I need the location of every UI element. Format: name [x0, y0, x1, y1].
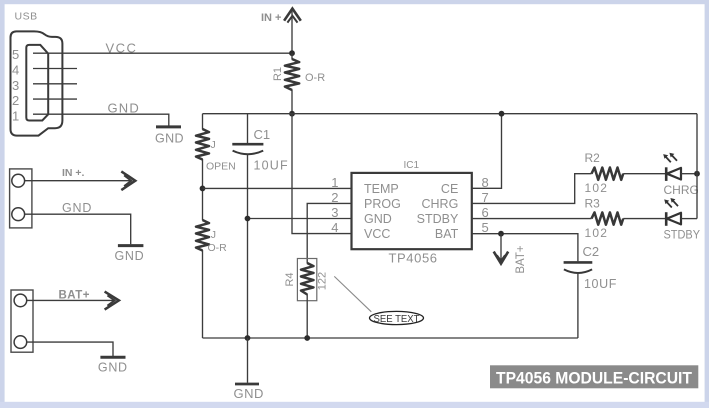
wire right rail: [696, 114, 698, 219]
svg-text:BAT+: BAT+: [59, 290, 91, 302]
svg-text:TP4056 MODULE-CIRCUIT: TP4056 MODULE-CIRCUIT: [496, 369, 693, 388]
svg-text:10UF: 10UF: [254, 159, 289, 173]
wire pin8 CE: [472, 114, 502, 189]
svg-text:TEMP: TEMP: [364, 182, 399, 196]
connector USB (mini-USB) outer shell: [11, 31, 63, 135]
svg-text:J: J: [211, 139, 216, 151]
connector J1 (IN): [10, 169, 32, 228]
svg-text:CHRG: CHRG: [421, 197, 458, 211]
connector USB inner cavity: [26, 45, 48, 121]
svg-text:CE: CE: [441, 182, 458, 196]
svg-text:10UF: 10UF: [584, 277, 617, 291]
wire R2 to LED CHRG: [623, 173, 666, 175]
wire pin2 PROG to R4 top: [307, 203, 351, 263]
LED STDBY: [665, 212, 668, 226]
net arrow IN+ (connector): [121, 171, 135, 190]
svg-text:4: 4: [331, 220, 338, 235]
wire IN+ arrow to VCC junction: [291, 10, 293, 54]
wire GND (connector J2): [27, 342, 113, 356]
svg-text:GND: GND: [98, 360, 128, 374]
svg-text:102: 102: [585, 226, 609, 240]
jumper J2 (0-R): [196, 220, 209, 251]
svg-text:C1: C1: [254, 127, 271, 142]
USB pin 3 stub: [33, 83, 77, 85]
svg-text:7: 7: [482, 190, 489, 205]
junction R4 / bottom rail: [304, 335, 310, 341]
svg-text:GND: GND: [234, 386, 264, 401]
svg-text:O-R: O-R: [305, 72, 325, 84]
net arrow BAT+ (connector): [105, 292, 119, 310]
USB pin 2 stub: [33, 98, 77, 100]
svg-text:6: 6: [482, 205, 489, 220]
wire BAT+ (connector): [27, 299, 114, 301]
junction LED CHRG / right rail: [694, 171, 700, 177]
svg-text:O-R: O-R: [208, 242, 228, 254]
svg-text:VCC: VCC: [364, 227, 390, 241]
wire GND from USB pin1: [33, 114, 169, 125]
leader line to note: [334, 276, 371, 311]
wire pin7 CHRG to R2: [472, 174, 592, 204]
LED CHRG: [665, 167, 668, 181]
svg-text:PROG: PROG: [364, 197, 401, 211]
junction pin3 / C1 branch: [245, 216, 251, 222]
resistor R3: [592, 212, 624, 224]
resistor R4 (boxed): [297, 259, 316, 301]
wire GND (connector J1): [25, 214, 131, 244]
wire top rail: [203, 113, 698, 115]
svg-text:IN +: IN +: [261, 12, 281, 24]
svg-text:R4: R4: [284, 272, 296, 286]
ground symbol (bottom): [247, 338, 249, 383]
svg-text:1: 1: [12, 108, 19, 123]
svg-text:IC1: IC1: [404, 160, 420, 171]
svg-text:GND: GND: [108, 101, 141, 116]
wire pin3 GND: [248, 218, 352, 220]
wire pin4 VCC riser: [292, 114, 352, 234]
wire left branch middle segment: [202, 159, 204, 220]
svg-text:BAT: BAT: [435, 227, 459, 241]
svg-text:2: 2: [331, 190, 338, 205]
svg-text:STDBY: STDBY: [664, 227, 701, 241]
junction C1 branch / bottom rail: [245, 335, 251, 341]
wire left branch lower segment: [202, 250, 204, 338]
capacitor C2: [564, 261, 593, 264]
svg-text:CHRG: CHRG: [664, 183, 699, 197]
junction VCC / R1: [289, 50, 295, 56]
svg-text:OPEN: OPEN: [206, 161, 236, 173]
net arrow BAT+ (down): [500, 234, 502, 262]
svg-text:SEE TEXT: SEE TEXT: [374, 314, 420, 325]
svg-text:8: 8: [482, 175, 489, 190]
IC IC1 TP4056: [352, 173, 472, 249]
wire IN+ (connector): [25, 180, 130, 182]
junction pin5 / BAT+: [498, 231, 504, 237]
wire R3 to LED STDBY: [623, 218, 666, 220]
USB pin 4 stub: [33, 68, 77, 70]
svg-text:IN +.: IN +.: [62, 167, 85, 179]
svg-text:USB: USB: [15, 11, 38, 23]
ground symbol (USB): [156, 125, 181, 128]
svg-text:VCC: VCC: [106, 41, 138, 56]
svg-text:C2: C2: [583, 244, 600, 259]
svg-text:GND: GND: [155, 131, 184, 145]
jumper J (OPEN): [196, 129, 209, 160]
svg-text:TP4056: TP4056: [389, 251, 438, 266]
ground symbol (J1): [118, 244, 143, 247]
wire VCC (USB pin5 to R1 junction): [33, 52, 292, 54]
svg-text:J: J: [211, 229, 216, 241]
svg-text:GND: GND: [62, 201, 92, 215]
connector J2 (BAT): [11, 290, 33, 352]
svg-text:3: 3: [12, 78, 19, 93]
ground symbol (J2): [100, 356, 125, 359]
wire pin6 STDBY to R3: [472, 218, 592, 220]
wire left branch vertical (J jumpers): [202, 114, 204, 130]
svg-text:GND: GND: [364, 212, 392, 226]
junction pin1 / left branch: [200, 186, 206, 192]
net arrow IN+ (top): [284, 9, 301, 21]
svg-text:5: 5: [482, 220, 489, 235]
svg-text:122: 122: [317, 272, 329, 290]
svg-text:R3: R3: [585, 197, 601, 211]
svg-text:R1: R1: [272, 67, 284, 81]
svg-text:3: 3: [331, 205, 338, 220]
wire bottom rail: [203, 337, 578, 339]
svg-text:2: 2: [12, 93, 19, 108]
junction pin8 riser / top rail: [499, 111, 505, 117]
svg-text:STDBY: STDBY: [417, 212, 459, 226]
svg-text:BAT+: BAT+: [515, 245, 527, 274]
svg-text:GND: GND: [115, 249, 145, 263]
junction R1 / top rail: [289, 111, 295, 117]
title block TP4056 MODULE-CIRCUIT: [490, 365, 698, 388]
resistor R1: [291, 53, 293, 59]
svg-text:1: 1: [331, 175, 338, 190]
svg-text:5: 5: [12, 47, 19, 62]
note SEE TEXT: [370, 311, 424, 324]
resistor R2: [592, 168, 624, 180]
svg-text:R2: R2: [585, 151, 601, 165]
wire pin1 TEMP: [203, 187, 352, 189]
wire pin5 BAT to C2: [472, 234, 578, 262]
capacitor C1: [247, 114, 249, 144]
wire LED CHRG to right rail: [681, 173, 697, 175]
svg-text:102: 102: [585, 181, 609, 195]
wire LED STDBY to right rail: [681, 218, 697, 220]
svg-text:4: 4: [12, 63, 19, 78]
